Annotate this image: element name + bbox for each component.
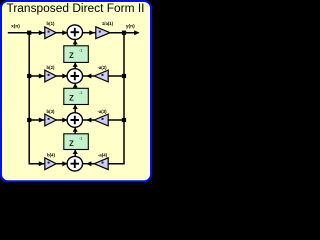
wire: right bus to gain -a(3)	[108, 119, 124, 121]
wire: gain -a(3) to sum S3	[82, 118, 94, 123]
junction on right bus at y(n)	[122, 31, 126, 35]
svg-text:z: z	[69, 93, 74, 104]
panel background with blue rounded border	[1, 1, 151, 181]
svg-text:b(1): b(1)	[47, 21, 55, 26]
svg-text:1/a(1): 1/a(1)	[102, 21, 114, 26]
node y(n) output label	[126, 23, 135, 29]
gain b(4)	[45, 153, 56, 170]
gain b(1)	[45, 21, 56, 38]
wire: input to gain b(1)	[8, 30, 45, 35]
junction left bus row 3	[27, 118, 31, 122]
node x(n) input label	[11, 23, 20, 29]
junction right bus row 3	[122, 118, 126, 122]
wire: gain b(3) to sum S3	[56, 118, 68, 123]
wire: delay Z1 to sum S2	[73, 62, 78, 68]
svg-text:z: z	[69, 138, 74, 149]
svg-text:-1: -1	[79, 49, 82, 53]
wire: right bus to gain -a(2)	[108, 75, 124, 77]
svg-text:x(n): x(n)	[11, 23, 20, 29]
svg-text:-a(4): -a(4)	[98, 153, 108, 158]
arrow into gain b(4)	[39, 161, 45, 166]
wire: gain b(2) to sum S2	[56, 74, 68, 79]
svg-text:-a(3): -a(3)	[97, 109, 107, 114]
junction on left bus at x(n)	[27, 31, 31, 35]
gain -a(4)	[94, 153, 108, 170]
wire: gain -a(2) to sum S2	[82, 74, 94, 79]
junction left bus row 2	[27, 74, 31, 78]
svg-text:b(4): b(4)	[47, 153, 55, 158]
delay Z2 z^-1	[64, 88, 89, 104]
wire: sum S1 down to delay Z1	[73, 40, 78, 46]
svg-text:-1: -1	[79, 91, 82, 95]
gain 1/a(1)	[96, 21, 114, 39]
wire: sum S1 to gain 1/a(1)	[82, 30, 95, 35]
wire: left bus from x(n) junction down to row 4	[29, 33, 45, 164]
delay Z3 z^-1	[64, 134, 89, 150]
svg-text:b(3): b(3)	[47, 109, 55, 114]
wire: delay Z3 to sum S4	[73, 150, 78, 157]
junction right bus row 2	[122, 74, 126, 78]
wire: gain b(1) to sum S1	[56, 30, 68, 35]
gain b(3)	[45, 109, 56, 126]
wire: gain b(4) to sum S4	[56, 161, 68, 166]
sum S4	[67, 156, 82, 171]
sum S1	[67, 25, 82, 40]
sum S2	[67, 69, 82, 84]
wire: delay Z2 to sum S3	[73, 105, 78, 113]
title	[7, 3, 145, 15]
wire: gain -a(4) to sum S4	[82, 161, 94, 166]
wire: sum S3 down to delay Z3	[73, 127, 78, 134]
wire: left bus to gain b(2)	[29, 74, 45, 79]
wire: gain 1/a(1) to output y(n)	[110, 30, 140, 35]
wire: left bus to gain b(3)	[29, 118, 45, 123]
wire: right bus from y(n) junction down to row 4	[108, 33, 124, 164]
gain -a(3)	[94, 109, 108, 126]
svg-text:y(n): y(n)	[126, 23, 135, 29]
svg-text:z: z	[69, 50, 74, 61]
wire: sum S2 down to delay Z2	[73, 83, 78, 88]
svg-text:b(2): b(2)	[47, 65, 55, 70]
gain b(2)	[45, 65, 56, 82]
delay Z1 z^-1	[64, 46, 89, 63]
svg-text:Transposed Direct Form II: Transposed Direct Form II	[7, 3, 145, 15]
svg-text:-a(2): -a(2)	[97, 65, 107, 70]
gain -a(2)	[94, 65, 108, 82]
sum S3	[67, 113, 82, 128]
svg-text:-1: -1	[79, 136, 82, 140]
